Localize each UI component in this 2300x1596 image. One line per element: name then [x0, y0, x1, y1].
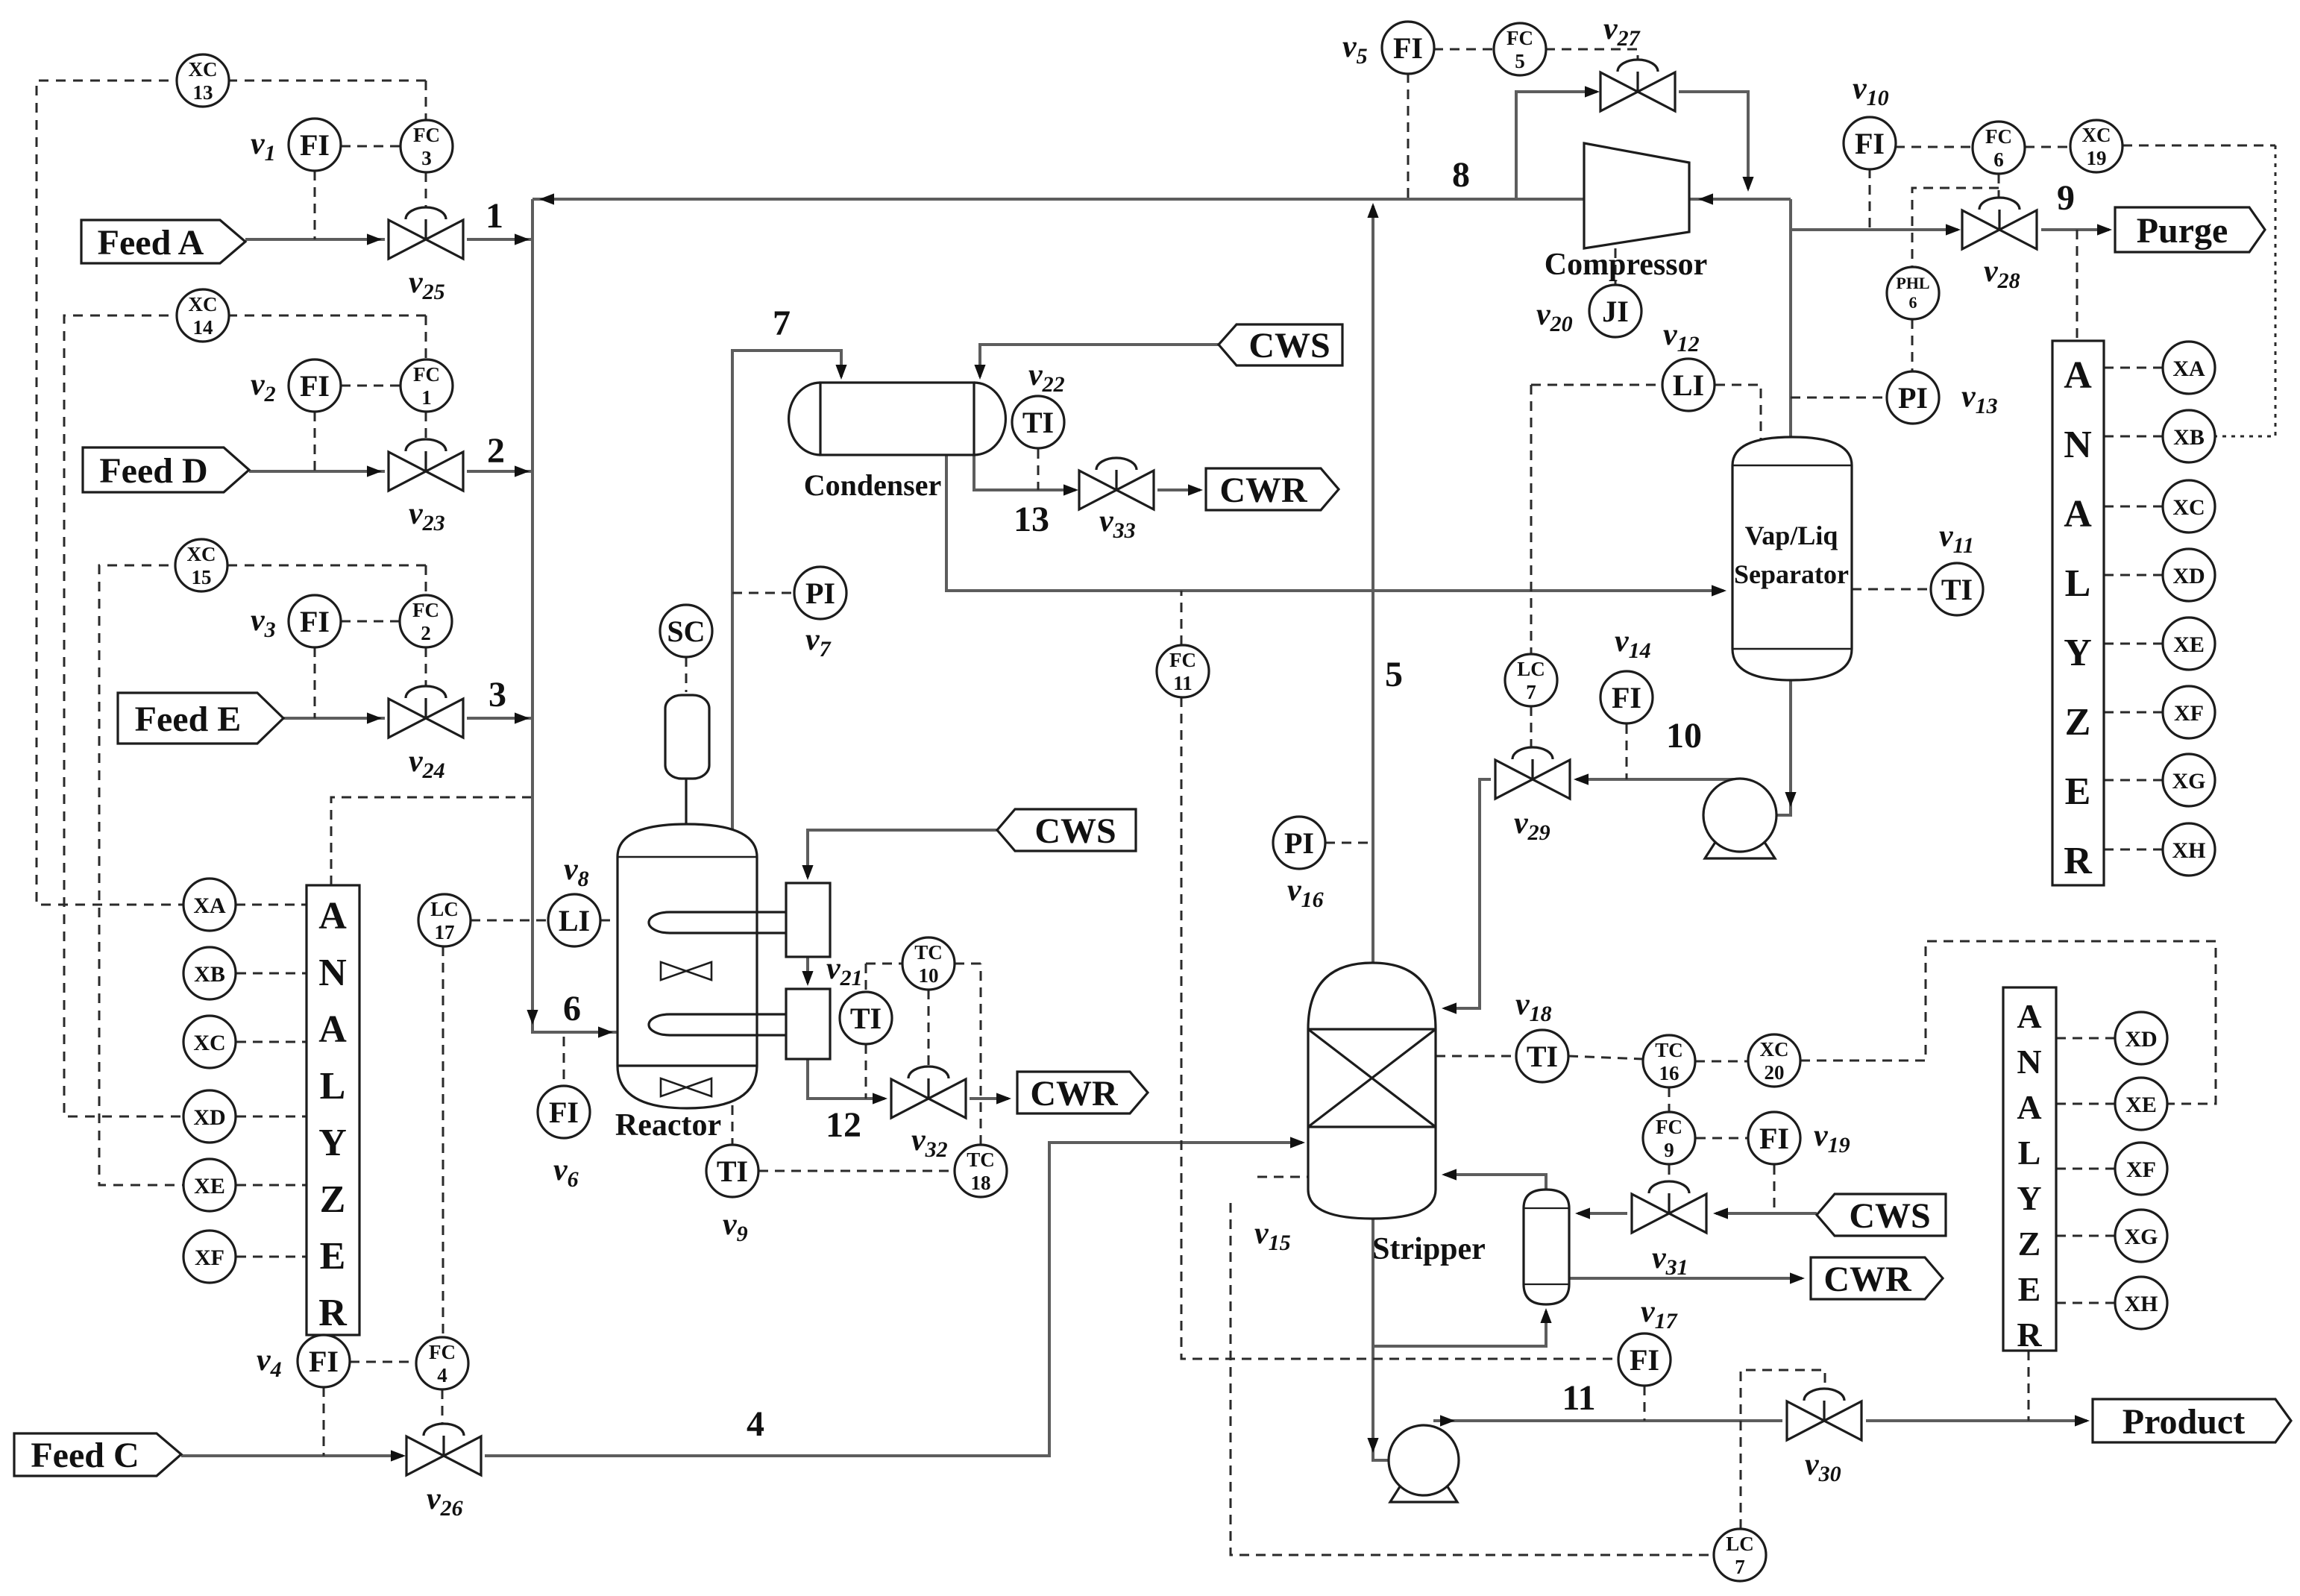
svg-text:CWR: CWR — [1030, 1074, 1119, 1113]
svg-text:XB: XB — [2173, 425, 2205, 450]
svg-text:Y: Y — [2017, 1179, 2041, 1217]
svg-text:16: 16 — [1659, 1062, 1680, 1084]
svg-text:Separator: Separator — [1734, 559, 1849, 589]
svg-text:XC: XC — [189, 58, 218, 81]
svg-text:PHL: PHL — [1896, 274, 1929, 292]
svg-text:E: E — [2018, 1270, 2041, 1308]
svg-text:19: 19 — [2087, 147, 2107, 169]
svg-text:Feed A: Feed A — [98, 223, 204, 263]
svg-text:TI: TI — [717, 1154, 748, 1188]
svg-text:13: 13 — [1014, 500, 1049, 539]
svg-text:XF: XF — [2126, 1157, 2156, 1182]
svg-text:A: A — [2017, 1088, 2041, 1126]
svg-text:FC: FC — [412, 599, 439, 621]
svg-text:Y: Y — [2064, 632, 2092, 674]
svg-text:SC: SC — [667, 615, 705, 648]
svg-text:LC: LC — [1726, 1533, 1754, 1555]
svg-text:R: R — [318, 1292, 348, 1334]
svg-text:PI: PI — [1898, 381, 1928, 415]
svg-text:3: 3 — [421, 147, 432, 169]
svg-text:FI: FI — [300, 369, 330, 403]
svg-text:14: 14 — [193, 316, 213, 339]
svg-text:XA: XA — [2172, 356, 2205, 381]
svg-text:JI: JI — [1602, 295, 1629, 328]
svg-text:17: 17 — [435, 921, 455, 943]
svg-text:XE: XE — [2125, 1093, 2157, 1117]
svg-text:Y: Y — [318, 1122, 347, 1164]
svg-text:A: A — [2017, 997, 2041, 1035]
svg-text:XH: XH — [2172, 838, 2206, 863]
svg-text:20: 20 — [1765, 1061, 1785, 1084]
svg-text:CWR: CWR — [1823, 1260, 1912, 1299]
svg-text:7: 7 — [773, 304, 791, 343]
svg-text:Reactor: Reactor — [615, 1108, 721, 1143]
svg-text:Z: Z — [320, 1178, 346, 1221]
svg-text:FI: FI — [300, 605, 330, 638]
svg-text:9: 9 — [1664, 1139, 1674, 1161]
svg-text:FC: FC — [429, 1341, 456, 1363]
svg-text:Condenser: Condenser — [804, 468, 941, 502]
svg-text:TC: TC — [914, 941, 943, 964]
svg-text:7: 7 — [1735, 1556, 1745, 1578]
svg-text:1: 1 — [486, 196, 503, 236]
svg-text:R: R — [2017, 1316, 2042, 1354]
svg-text:E: E — [320, 1235, 346, 1278]
svg-text:Z: Z — [2065, 701, 2091, 744]
svg-text:7: 7 — [1526, 681, 1536, 703]
svg-text:L: L — [320, 1065, 346, 1108]
svg-text:LC: LC — [1517, 658, 1545, 680]
svg-text:6: 6 — [1909, 293, 1917, 312]
svg-text:13: 13 — [193, 81, 213, 104]
svg-text:FC: FC — [1506, 27, 1533, 49]
svg-text:XB: XB — [194, 962, 225, 987]
svg-text:XH: XH — [2125, 1292, 2158, 1316]
svg-text:9: 9 — [2057, 178, 2075, 218]
svg-text:XC: XC — [2172, 495, 2205, 520]
svg-text:TI: TI — [1527, 1040, 1558, 1073]
svg-text:Z: Z — [2018, 1225, 2041, 1263]
svg-text:XC: XC — [2082, 124, 2111, 146]
svg-text:5: 5 — [1385, 655, 1403, 694]
svg-text:XF: XF — [195, 1245, 224, 1270]
svg-text:4: 4 — [747, 1404, 764, 1444]
svg-text:XC: XC — [187, 543, 216, 565]
svg-text:15: 15 — [192, 566, 212, 588]
svg-text:CWS: CWS — [1849, 1196, 1930, 1236]
svg-text:18: 18 — [971, 1172, 991, 1194]
svg-text:TC: TC — [1655, 1039, 1683, 1061]
svg-text:XF: XF — [2174, 701, 2204, 726]
svg-text:11: 11 — [1173, 672, 1193, 694]
svg-text:XC: XC — [193, 1031, 225, 1055]
svg-text:11: 11 — [1562, 1378, 1595, 1418]
svg-text:Feed D: Feed D — [99, 451, 207, 491]
svg-text:FI: FI — [1630, 1343, 1659, 1377]
svg-text:6: 6 — [563, 989, 581, 1028]
svg-text:N: N — [2064, 424, 2092, 466]
svg-text:8: 8 — [1452, 155, 1470, 195]
svg-text:FI: FI — [300, 128, 330, 162]
svg-text:TI: TI — [1941, 573, 1973, 606]
svg-text:Stripper: Stripper — [1372, 1232, 1486, 1266]
svg-text:L: L — [2065, 562, 2091, 605]
svg-text:Feed E: Feed E — [135, 700, 242, 739]
svg-text:XD: XD — [2172, 564, 2205, 588]
svg-text:FC: FC — [1656, 1116, 1682, 1138]
svg-text:LC: LC — [430, 898, 459, 920]
svg-text:XD: XD — [2125, 1027, 2157, 1052]
svg-text:10: 10 — [1666, 716, 1702, 755]
svg-text:FC: FC — [1985, 125, 2012, 148]
svg-text:Vap/Liq: Vap/Liq — [1745, 521, 1838, 550]
svg-text:10: 10 — [919, 964, 939, 987]
svg-text:A: A — [318, 1008, 347, 1051]
svg-text:XD: XD — [193, 1105, 225, 1130]
svg-text:2: 2 — [421, 622, 431, 644]
svg-text:A: A — [2064, 354, 2092, 397]
svg-text:FC: FC — [1169, 649, 1196, 671]
svg-text:5: 5 — [1515, 50, 1525, 72]
svg-text:2: 2 — [487, 431, 505, 471]
svg-text:XA: XA — [193, 893, 226, 918]
svg-text:Compressor: Compressor — [1545, 248, 1708, 282]
svg-text:XC: XC — [189, 293, 218, 315]
svg-text:PI: PI — [805, 576, 835, 610]
svg-text:1: 1 — [421, 386, 432, 409]
svg-text:XC: XC — [1760, 1038, 1789, 1061]
svg-text:XE: XE — [2173, 632, 2205, 657]
svg-text:N: N — [318, 952, 347, 994]
svg-text:FI: FI — [1393, 31, 1423, 65]
svg-text:XG: XG — [2172, 769, 2206, 794]
svg-text:Feed C: Feed C — [31, 1436, 139, 1475]
svg-text:4: 4 — [437, 1364, 447, 1386]
svg-text:PI: PI — [1284, 826, 1314, 860]
svg-text:A: A — [2064, 493, 2092, 535]
svg-text:FI: FI — [1855, 127, 1885, 160]
svg-text:FC: FC — [413, 124, 440, 146]
svg-text:L: L — [2018, 1134, 2041, 1172]
svg-text:CWR: CWR — [1219, 471, 1308, 510]
svg-text:TC: TC — [967, 1149, 995, 1171]
svg-text:TI: TI — [850, 1002, 882, 1035]
svg-text:R: R — [2064, 840, 2093, 882]
svg-text:12: 12 — [826, 1105, 861, 1145]
svg-text:LI: LI — [1673, 368, 1704, 402]
svg-text:CWS: CWS — [1248, 326, 1330, 365]
svg-text:3: 3 — [488, 675, 506, 714]
svg-text:Purge: Purge — [2137, 211, 2228, 251]
svg-text:CWS: CWS — [1034, 811, 1116, 851]
svg-text:XG: XG — [2125, 1225, 2158, 1249]
svg-text:FI: FI — [549, 1096, 579, 1129]
svg-text:TI: TI — [1022, 406, 1054, 439]
svg-text:FC: FC — [413, 363, 440, 386]
svg-text:FI: FI — [309, 1345, 339, 1378]
svg-text:Product: Product — [2123, 1402, 2245, 1442]
svg-text:E: E — [2065, 770, 2091, 813]
svg-text:6: 6 — [1993, 148, 2004, 171]
svg-text:N: N — [2017, 1043, 2041, 1081]
svg-text:FI: FI — [1612, 681, 1641, 714]
svg-text:A: A — [318, 895, 347, 937]
svg-text:LI: LI — [559, 904, 590, 937]
svg-text:XE: XE — [194, 1174, 225, 1198]
svg-text:FI: FI — [1759, 1122, 1789, 1155]
